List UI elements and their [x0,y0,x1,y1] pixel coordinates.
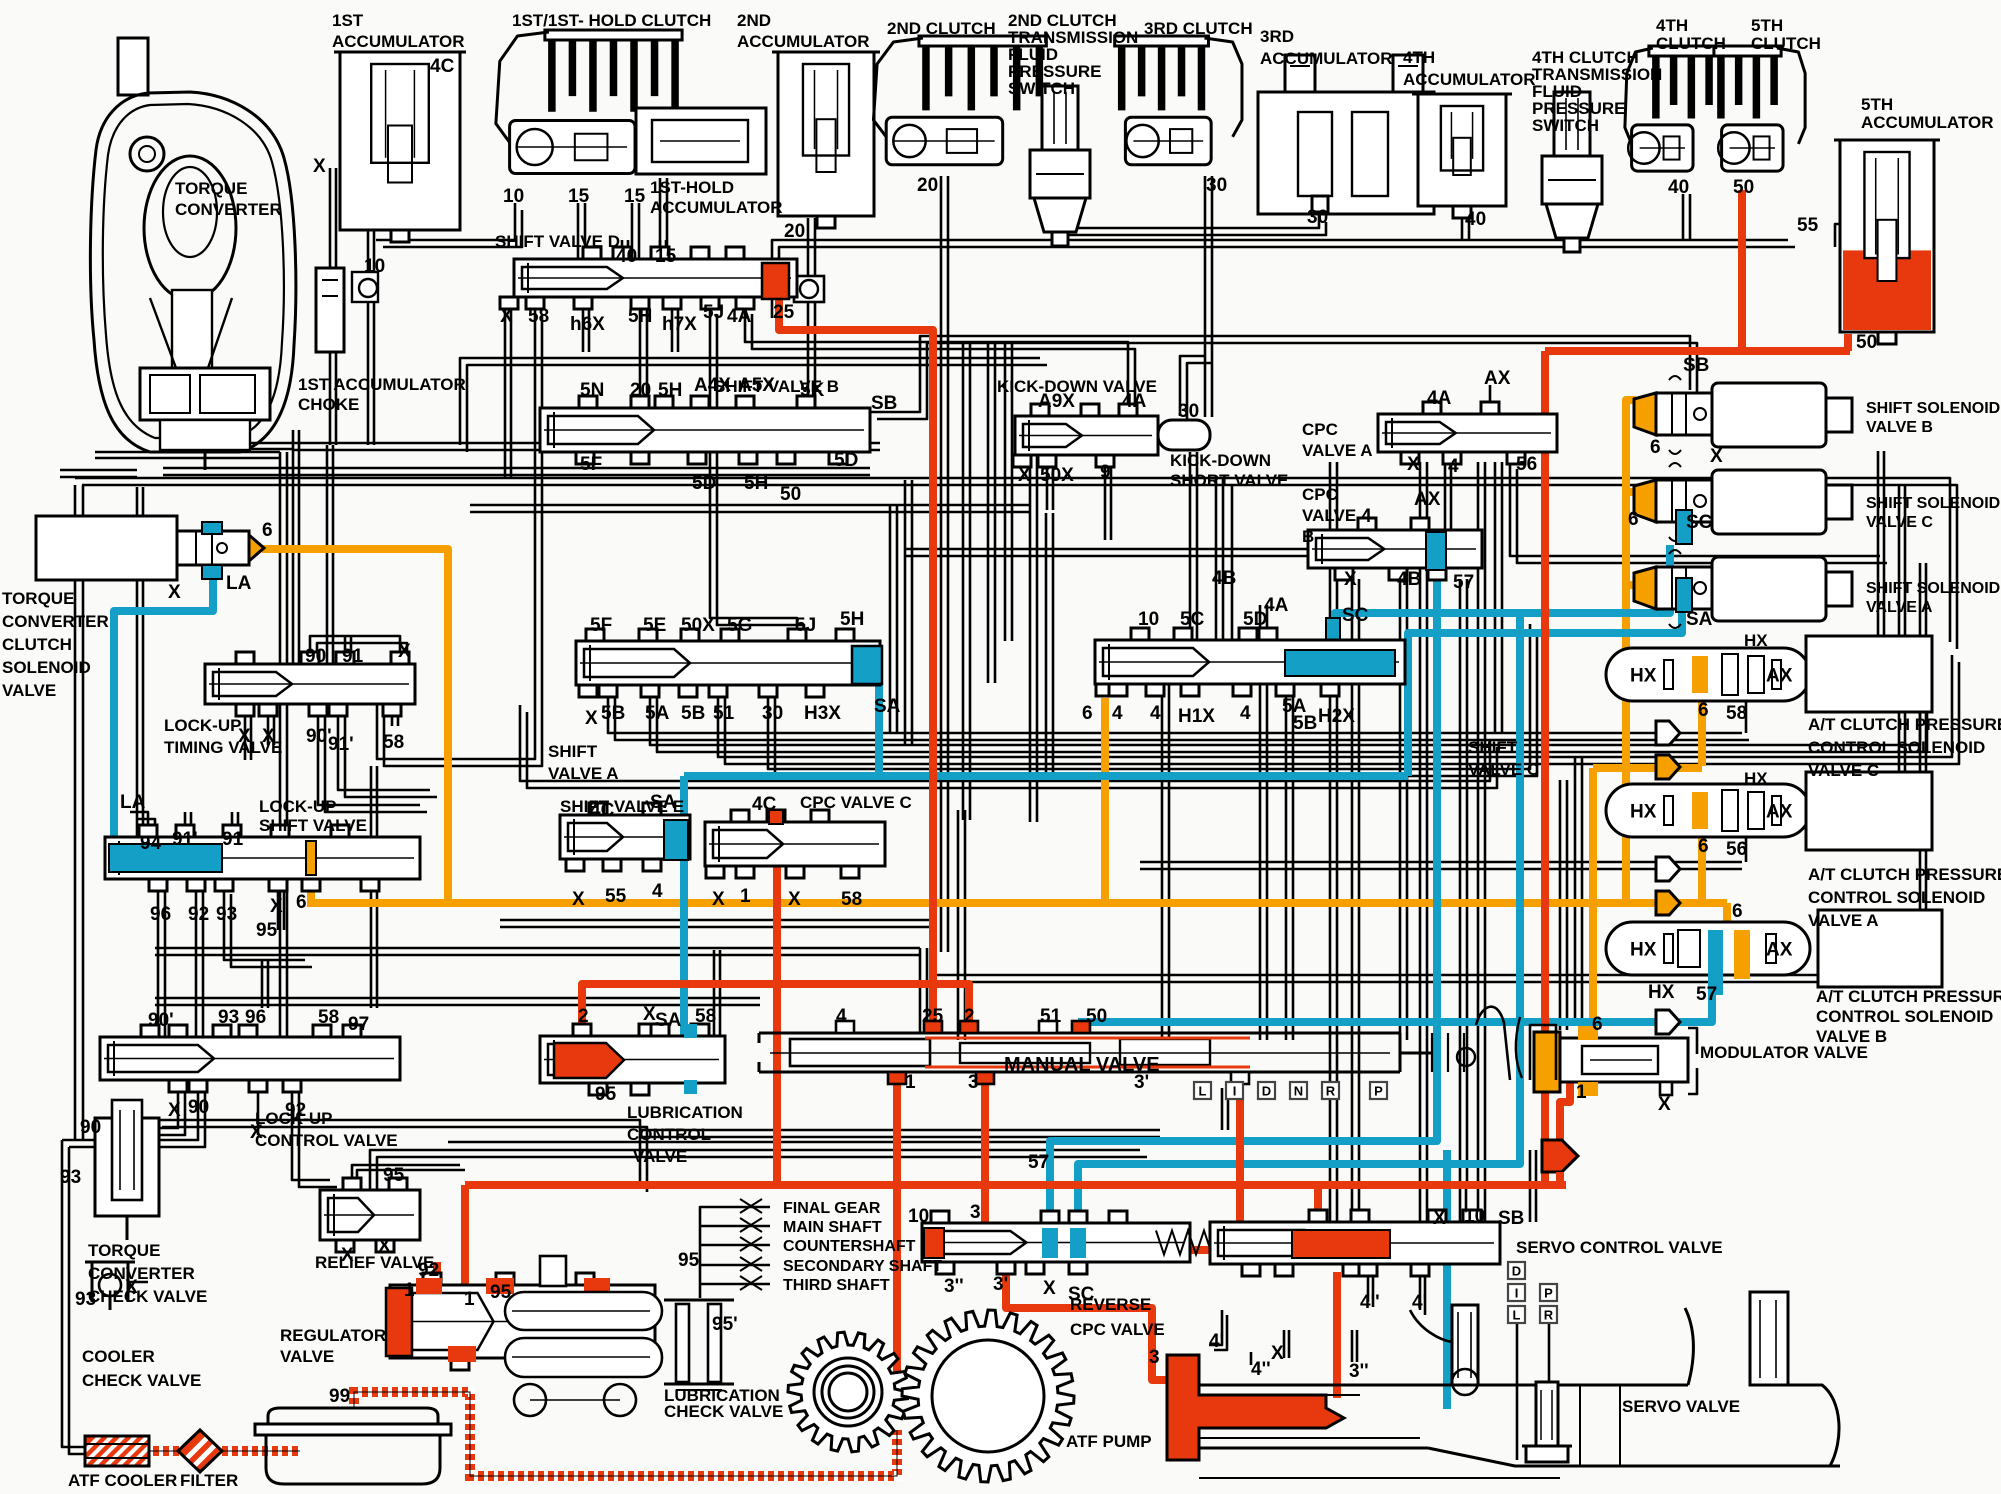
svg-text:SERVO VALVE: SERVO VALVE [1622,1397,1740,1416]
svg-text:5B: 5B [1293,713,1317,734]
svg-text:VALVE C: VALVE C [1866,514,1933,531]
svg-text:1ST: 1ST [332,11,364,30]
svg-text:5C: 5C [1180,609,1205,630]
cpc valve B [1308,518,1482,580]
solenoid C blue bits [1676,510,1692,544]
atf pump drive gear [788,1332,908,1452]
svg-text:5F: 5F [580,454,602,475]
svg-text:H3X: H3X [804,703,841,724]
svg-text:SHIFT SOLENOID: SHIFT SOLENOID [1866,495,2000,512]
shift solenoid valve A [1634,550,1852,628]
svg-text:D: D [1512,1264,1521,1279]
svg-text:2: 2 [578,1006,589,1027]
4th accumulator [1412,94,1512,218]
svg-text:X: X [250,1122,263,1143]
lock-up timing valve [205,652,415,716]
svg-text:X: X [238,726,251,747]
wire 6 cpc c drop [1698,699,1706,766]
svg-text:50: 50 [1733,177,1754,198]
3rd clutch [1115,36,1242,165]
svg-text:4: 4 [652,881,663,902]
check cone white C [1656,721,1680,745]
wire 3 servo riser [1314,1187,1322,1225]
svg-text:4A: 4A [1427,388,1452,409]
svg-text:1ST ACCUMULATOR: 1ST ACCUMULATOR [298,375,466,394]
wire 50 5th accumulator [1844,334,1852,351]
svg-text:N: N [1294,1084,1303,1099]
svg-text:KICK-DOWN: KICK-DOWN [1170,451,1271,470]
wire vx1216 [1216,478,1223,684]
wire 6 cpc a drop [1698,835,1706,900]
wire 9 [1105,452,1111,540]
wire 6 lockup shift [307,875,315,903]
svg-text:58: 58 [318,1007,339,1028]
svg-text:TORQUE: TORQUE [2,589,74,608]
svg-text:58: 58 [383,732,404,753]
svg-text:96: 96 [150,904,171,925]
svg-text:CONTROL VALVE: CONTROL VALVE [255,1131,398,1150]
svg-text:ATF COOLER: ATF COOLER [68,1471,177,1490]
svg-text:99: 99 [329,1386,350,1407]
svg-text:5F: 5F [590,615,612,636]
svg-text:10: 10 [503,186,524,207]
svg-text:AX: AX [1766,666,1793,687]
legend labels [783,1200,942,1294]
1st accumulator [334,52,466,242]
svg-text:MODULATOR VALVE: MODULATOR VALVE [1700,1043,1868,1062]
svg-text:X: X [1407,454,1420,475]
svg-text:TORQUE: TORQUE [88,1241,160,1260]
wire bus y733 [608,683,1749,740]
svg-text:20: 20 [784,221,805,242]
wire vx1420 [1420,462,1427,1222]
wire 50 horizontal [1545,347,1850,355]
svg-text:I: I [1515,1286,1519,1301]
svg-text:CPC: CPC [1302,420,1338,439]
svg-text:HX: HX [1630,940,1657,961]
svg-text:CONTROL SOLENOID: CONTROL SOLENOID [1808,738,1985,757]
2nd clutch [873,36,1046,165]
svg-text:P: P [1544,1286,1553,1301]
svg-text:P: P [1374,1084,1383,1099]
svg-text:COUNTERSHAFT: COUNTERSHAFT [783,1238,916,1255]
svg-text:X: X [572,889,585,910]
svg-text:25: 25 [773,302,795,323]
svg-text:3RD CLUTCH: 3RD CLUTCH [1144,19,1253,38]
svg-text:ATF PUMP: ATF PUMP [1066,1432,1152,1451]
svg-text:4: 4 [1448,456,1459,477]
svg-text:58: 58 [528,306,549,327]
wire 4C cpc c [773,830,781,1185]
wire LA solenoid [114,580,213,840]
svg-text:X: X [125,1277,138,1298]
lock-up shift valve [105,825,420,891]
svg-text:CONVERTER: CONVERTER [88,1264,195,1283]
svg-text:90: 90 [305,646,326,667]
svg-text:91: 91 [342,646,364,667]
torque converter [90,38,295,470]
svg-text:6: 6 [1650,437,1661,458]
svg-text:X: X [585,708,598,729]
svg-text:SB: SB [1498,1208,1524,1229]
svg-text:X: X [1433,1208,1446,1229]
shift valve B [540,396,870,464]
svg-text:6: 6 [1592,1014,1603,1035]
svg-text:D: D [1262,1084,1271,1099]
shift valve A [576,629,880,697]
svg-text:6: 6 [1082,703,1093,724]
wire left edge pair [75,485,83,1140]
wire manual valve right [1222,1088,1228,1130]
svg-text:4B: 4B [1212,568,1236,589]
wire bus y769 [768,624,1537,776]
svg-text:CONVERTER: CONVERTER [175,200,282,219]
wire 57 cpc b [1050,570,1437,1224]
wire suction cooler-filter [149,1446,182,1456]
wire 3 reverse to pump [1006,1262,1167,1380]
svg-text:4C: 4C [752,794,777,815]
svg-text:X: X [341,1245,354,1266]
manual valve [759,1007,1556,1084]
wire 1 regulator drop [461,1185,469,1290]
wire SC solenoid C [1335,545,1670,648]
svg-text:4: 4 [1240,703,1251,724]
wire 92 regulator [433,1262,441,1292]
svg-text:SA: SA [655,1010,682,1031]
svg-text:X: X [313,156,326,177]
svg-text:93: 93 [75,1289,96,1310]
shift valve C [1095,628,1405,696]
labels mid [2,377,1539,835]
wire y1120 band [155,1120,647,1192]
wire 10 1st accumulator [368,231,374,445]
svg-text:SHIFT: SHIFT [548,742,598,761]
svg-text:40: 40 [1668,177,1689,198]
svg-text:5D: 5D [692,473,716,494]
svg-text:H1X: H1X [1178,706,1215,727]
filter [175,1430,236,1478]
wire bus y549 [905,549,1443,556]
solenoid A blue bits [1676,578,1692,612]
svg-text:91': 91' [328,734,354,755]
svg-text:6: 6 [296,892,307,913]
wire lockup timing bot [245,704,437,812]
svg-text:93: 93 [216,904,237,925]
svg-text:AX: AX [1766,802,1793,823]
svg-text:30: 30 [762,703,783,724]
wire 6 solenoid riser [1626,400,1636,907]
wire 30 3rd clutch [1205,176,1212,417]
svg-text:L: L [1513,1308,1521,1323]
regulator bolt [540,1256,566,1286]
servo valve red slab [1167,1355,1344,1460]
4th clutch pressure switch [1542,92,1602,252]
svg-text:10: 10 [1138,609,1159,630]
shift valve E blue cap [664,820,688,860]
svg-text:CHOKE: CHOKE [298,395,359,414]
wire bus y443 [293,443,880,450]
svg-text:SHIFT VALVE D: SHIFT VALVE D [495,232,620,251]
wire y1130 [640,1130,1160,1137]
wire vx1260 [1260,605,1267,1040]
svg-text:SA: SA [1686,609,1713,630]
wire vx1478 [1478,462,1485,1222]
wire x505 drop [505,307,511,478]
wire 90 [280,430,299,1037]
svg-text:90: 90 [188,1097,209,1118]
svg-text:H2X: H2X [1318,706,1355,727]
wire 15 1st clutch [578,203,639,259]
svg-text:VALVE B: VALVE B [1866,419,1933,436]
svg-text:55: 55 [1797,215,1819,236]
wire vx1400 [1400,579,1407,1040]
svg-text:15: 15 [624,186,646,207]
shift solenoid valve B [1634,376,1852,454]
svg-text:92: 92 [188,904,209,925]
svg-text:SWITCH: SWITCH [1008,79,1075,98]
svg-text:L: L [1199,1084,1207,1099]
svg-text:X: X [168,582,181,603]
wire bus y781 [520,705,1497,788]
lock-up shift valve blue fill [109,844,222,872]
svg-text:1: 1 [905,1072,916,1093]
svg-text:20: 20 [917,175,938,196]
cpc valve C red stub [769,810,783,824]
svg-text:5B: 5B [601,703,625,724]
wire 6 long horizontal [307,899,1727,907]
wire 91 [327,445,333,664]
wire vx890 [890,505,897,733]
wire vx1046 [1046,513,1053,781]
wire 6 cpc b drop [1723,903,1731,938]
svg-text:58: 58 [1726,703,1747,724]
svg-text:h7X: h7X [662,314,697,335]
svg-text:VALVE: VALVE [280,1347,334,1366]
at cpc solenoid valve B [1606,922,1810,995]
svg-text:5N: 5N [580,380,604,401]
atf pump driven gear [902,1310,1074,1482]
wire 1 modulator [1560,1080,1570,1142]
svg-text:X: X [712,889,725,910]
wire SA sve drop [680,776,688,1036]
svg-text:AX: AX [1766,940,1793,961]
wire 10 1st clutch [376,203,522,247]
svg-text:6: 6 [262,520,273,541]
wire 3 manual port [981,1072,989,1224]
svg-text:51: 51 [1040,1006,1062,1027]
svg-text:SHIFT: SHIFT [1468,738,1518,757]
svg-text:SC: SC [1686,512,1713,533]
at cpc solenoid valve A box [1806,772,1932,850]
wire SA long [684,580,1682,776]
wire y920 [500,920,930,927]
wire h6X [583,307,589,352]
5th accumulator [1834,140,1940,344]
svg-text:3'': 3'' [1349,1361,1369,1382]
wire y938 [155,948,927,1033]
shift valve D red cap [762,263,789,299]
wire relief [352,1150,1147,1197]
svg-text:40: 40 [616,246,637,267]
svg-text:LOCK-UP: LOCK-UP [259,797,336,816]
wire blue servo drop [1443,1150,1451,1409]
torque converter clutch solenoid valve [36,516,264,580]
svg-text:57: 57 [1453,572,1474,593]
svg-text:5K: 5K [800,380,825,401]
wire h7X [672,307,678,352]
svg-text:ACCUMULATOR: ACCUMULATOR [737,32,870,51]
torque converter check valve [95,1100,159,1240]
svg-text:4: 4 [1150,703,1161,724]
modulator valve [1534,1026,1697,1096]
wire blue y1022 [1078,962,1712,1022]
svg-text:3: 3 [970,1202,981,1223]
wire 4A shift valve D [745,307,1135,423]
svg-text:6: 6 [1698,836,1709,857]
shift valve E [560,803,690,871]
labels right [1516,631,2001,1416]
svg-text:3RD: 3RD [1260,27,1294,46]
wire vx1162 [1162,684,1169,1040]
svg-text:10: 10 [364,256,385,277]
svg-text:2: 2 [964,1006,975,1027]
wire vx1460 [1460,579,1467,1185]
wire 20 2nd clutch [941,176,948,952]
svg-text:5H: 5H [628,306,652,327]
5th clutch [1714,46,1805,171]
svg-text:4A: 4A [1122,391,1147,412]
svg-text:4B: 4B [1397,569,1421,590]
wire 40 15 risers [622,240,666,259]
svg-text:1ST/1ST- HOLD CLUTCH: 1ST/1ST- HOLD CLUTCH [512,11,711,30]
shift valve A blue cap [852,646,882,684]
wire 15 hold accumulator [660,178,667,259]
svg-text:X: X [1658,1094,1671,1115]
svg-text:TORQUE: TORQUE [175,179,247,198]
cpc valve B blue cap [1426,532,1446,570]
svg-text:4A: 4A [1264,595,1289,616]
svg-text:R: R [1544,1308,1554,1323]
svg-text:2ND: 2ND [737,11,771,30]
svg-text:95: 95 [383,1165,405,1186]
relief valve [320,1178,420,1252]
svg-text:THIRD SHAFT: THIRD SHAFT [783,1277,890,1294]
svg-text:HX: HX [1744,769,1768,788]
check cone red modulator [1542,1140,1578,1172]
wire vx905 [905,480,912,745]
labels bottom [68,1103,1165,1490]
wire 50 5th clutch [1738,190,1746,351]
svg-text:5J: 5J [703,302,724,323]
svg-text:91: 91 [222,829,244,850]
svg-text:6: 6 [1698,700,1709,721]
svg-text:92: 92 [418,1260,439,1281]
cpc valve A [1378,402,1557,464]
2nd clutch pressure switch [1030,86,1090,246]
svg-text:3: 3 [968,1072,979,1093]
check cone C [1656,755,1680,779]
svg-text:95: 95 [595,1084,617,1105]
wire y1142 [448,1141,1050,1144]
wire top bus [772,224,1859,325]
svg-text:A/T CLUTCH PRESSURE: A/T CLUTCH PRESSURE [1816,987,2001,1006]
svg-text:6: 6 [1628,509,1639,530]
svg-text:4A: 4A [727,306,752,327]
svg-text:57: 57 [1696,984,1717,1005]
wire 30 kick-down [1180,356,1212,423]
cooler check valve [85,1262,148,1310]
wire 6 solenoid A stub [1626,581,1636,589]
svg-text:CONTROL: CONTROL [627,1125,711,1144]
svg-text:A/T CLUTCH PRESSURE: A/T CLUTCH PRESSURE [1808,715,2001,734]
svg-text:ACCUMULATOR: ACCUMULATOR [1403,70,1536,89]
svg-text:30: 30 [1206,175,1227,196]
wire 40 4th accumulator [1462,194,1690,240]
reverse cpc red cap [924,1228,944,1258]
svg-text:ACCUMULATOR: ACCUMULATOR [1861,113,1994,132]
labels top-right [1403,16,1994,135]
svg-text:VALVE C: VALVE C [1808,761,1879,780]
svg-text:HX: HX [1630,666,1657,687]
svg-text:COOLER: COOLER [82,1347,155,1366]
wire bus y757 [718,655,1959,764]
svg-text:95: 95 [490,1282,512,1303]
svg-text:SERVO CONTROL VALVE: SERVO CONTROL VALVE [1516,1238,1723,1257]
svg-text:5D: 5D [834,450,858,471]
svg-text:X: X [262,726,275,747]
svg-text:HX: HX [1744,631,1768,650]
svg-text:4C: 4C [430,56,455,77]
wire vx1575 [1575,757,1582,1022]
svg-text:VALVE: VALVE [2,681,56,700]
wire 56 [1510,462,1887,563]
wire SB net [870,336,1697,419]
port labels right [1149,700,1747,1382]
wire tc bottom [95,443,293,458]
svg-text:SHIFT VALVE: SHIFT VALVE [259,816,367,835]
svg-text:97: 97 [348,1014,369,1035]
wire y975 [935,975,1880,982]
svg-text:AX: AX [1414,489,1441,510]
wire 99 suction [354,1392,897,1476]
svg-text:2ND CLUTCH: 2ND CLUTCH [887,19,996,38]
svg-text:96: 96 [245,1007,266,1028]
selector D I L P R [1508,1262,1557,1323]
svg-text:5H: 5H [840,609,864,630]
wire y1008 left [155,950,760,1036]
check cone blue [1656,1010,1680,1034]
svg-text:25: 25 [922,1006,944,1027]
wire servo D I L [1517,1322,1549,1460]
wire bus y478 [75,478,1957,649]
svg-text:CLUTCH: CLUTCH [1656,34,1726,53]
3rd accumulator [1258,55,1434,214]
svg-text:CPC VALVE C: CPC VALVE C [800,793,912,812]
svg-text:ACCUMULATOR: ACCUMULATOR [332,32,465,51]
wire 6 svc stub [1101,698,1109,903]
svg-text:4: 4 [836,1006,847,1027]
svg-text:4: 4 [1112,703,1123,724]
svg-text:SC: SC [1068,1284,1095,1305]
svg-text:93: 93 [218,1007,239,1028]
svg-text:3': 3' [1134,1072,1149,1093]
svg-text:REGULATOR: REGULATOR [280,1326,386,1345]
port labels mid [120,355,1723,941]
svg-text:4C: 4C [590,800,615,821]
wire 5J shift valve D [710,307,804,650]
wire 1 main vertical [1541,351,1549,1185]
svg-text:4'': 4'' [1360,1292,1380,1313]
